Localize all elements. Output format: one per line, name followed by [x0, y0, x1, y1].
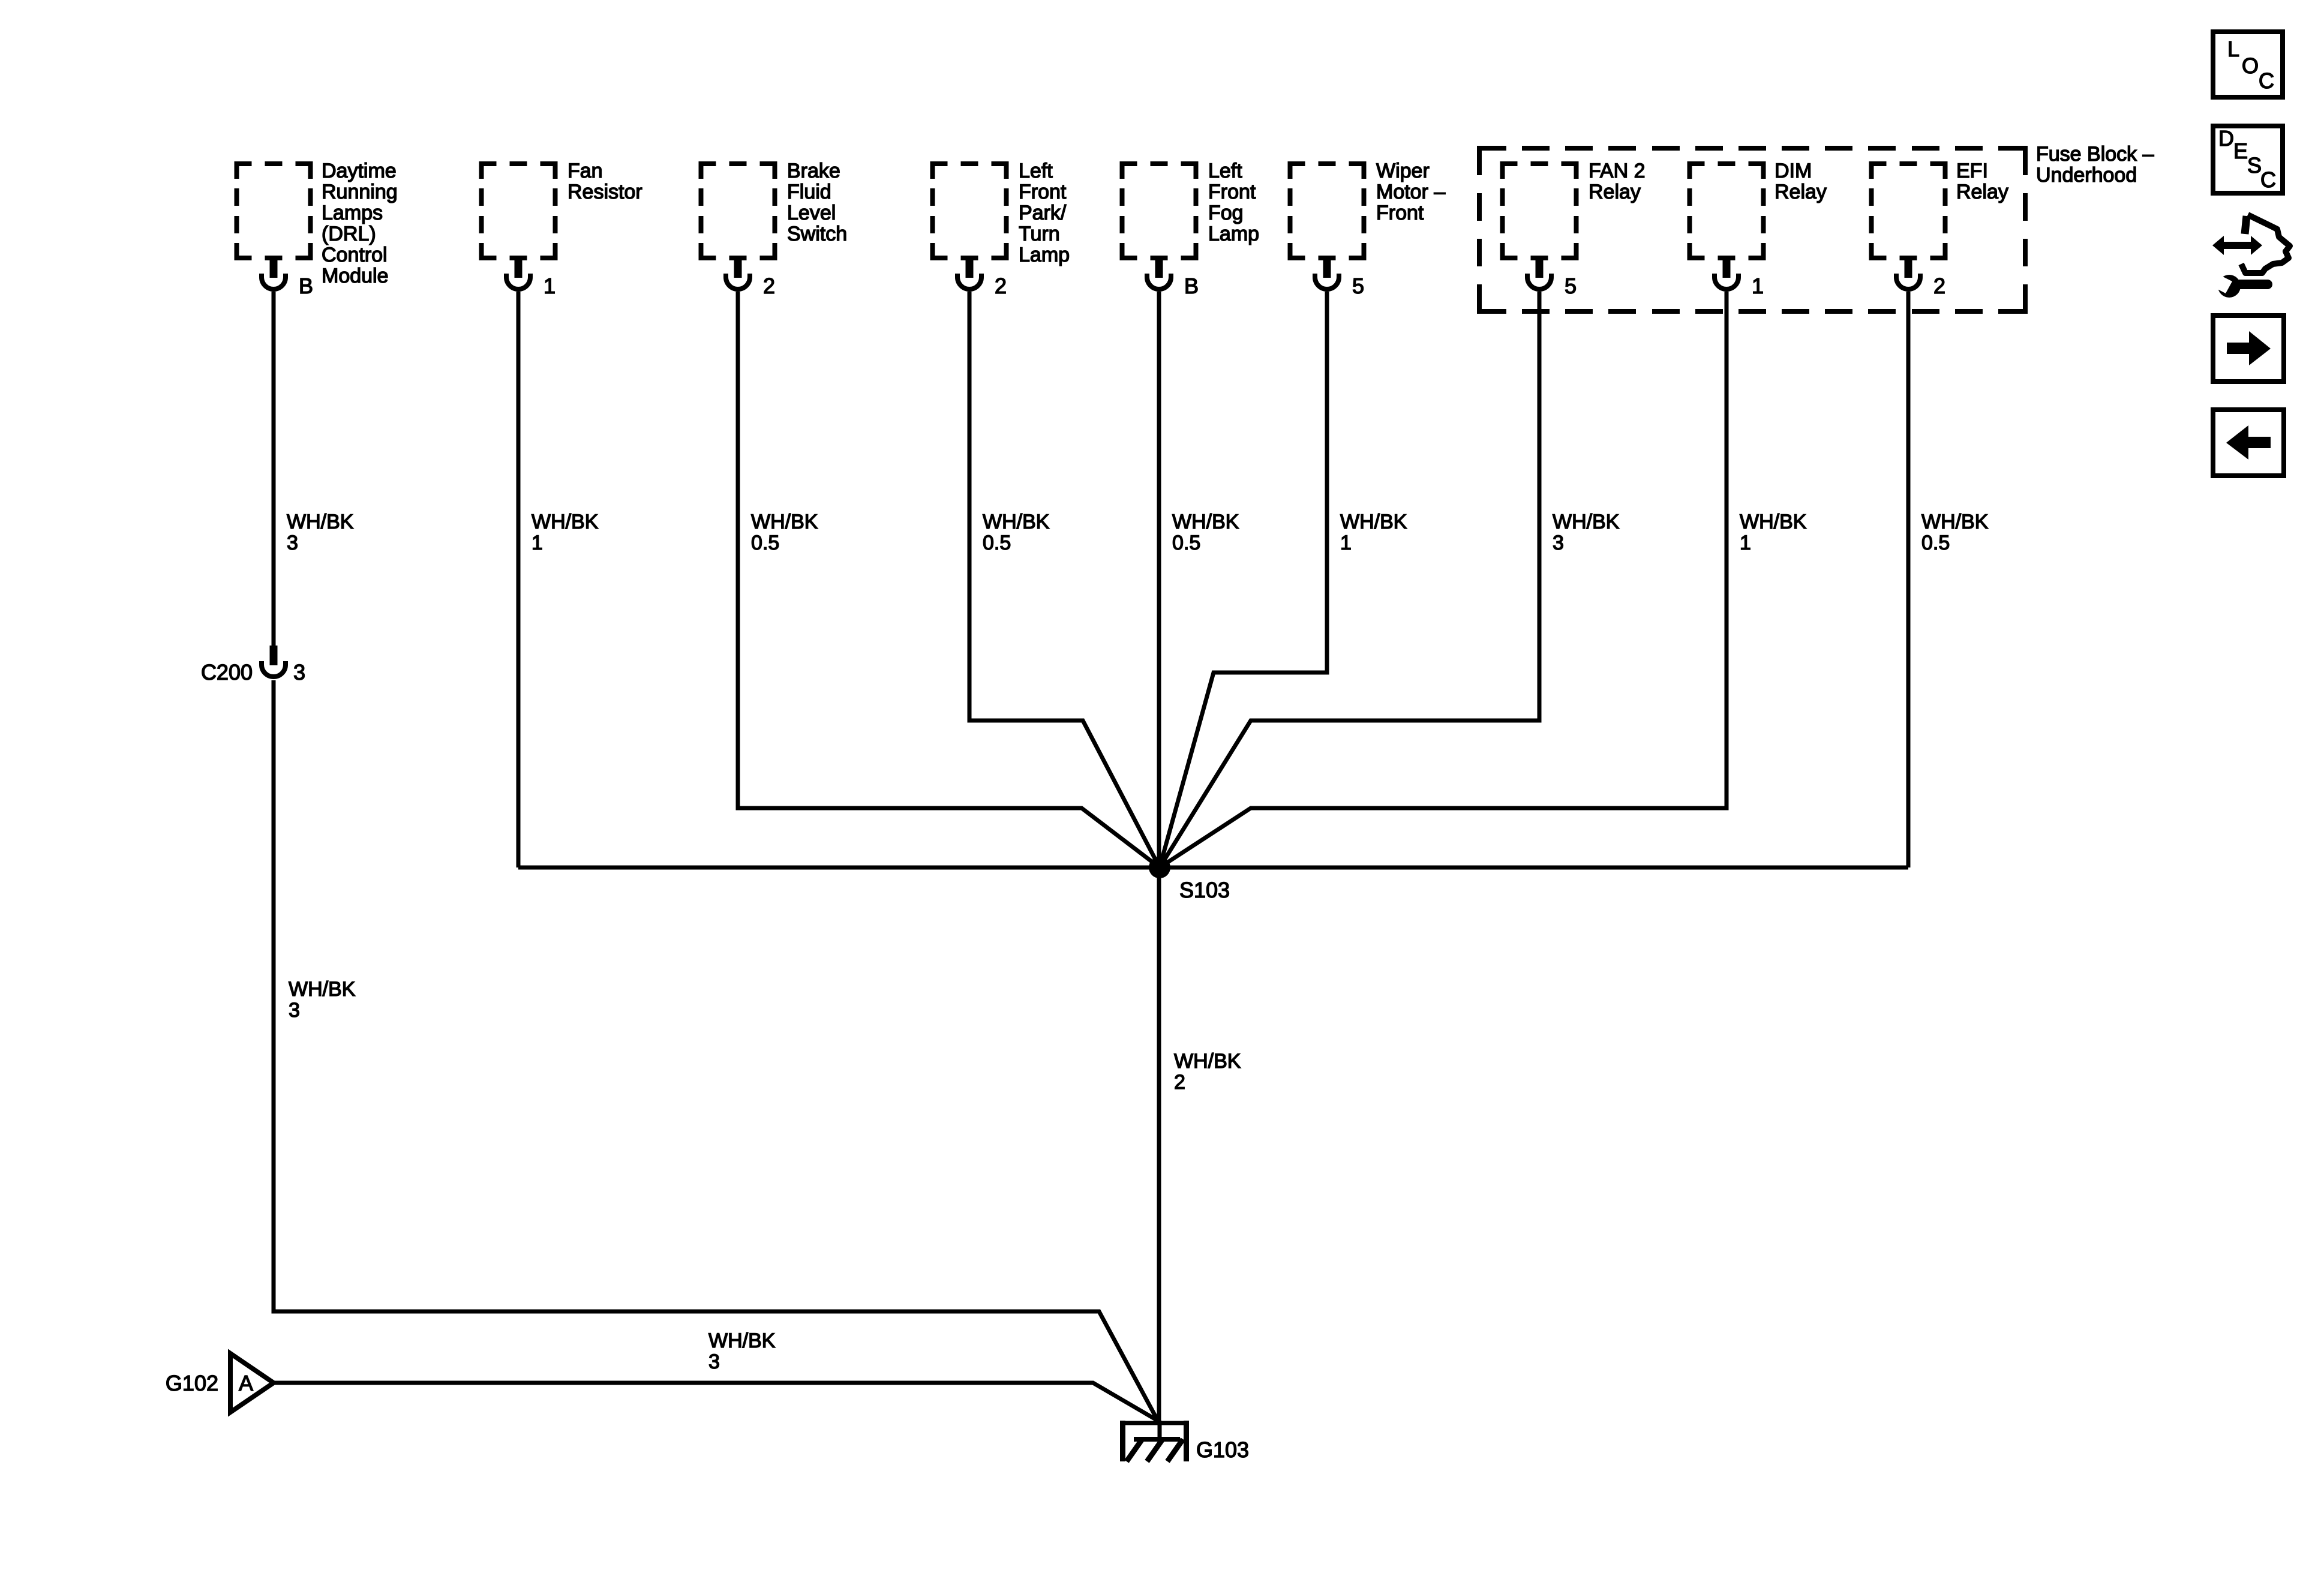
- svg-text:O: O: [2242, 53, 2259, 78]
- svg-text:WH/BK: WH/BK: [287, 511, 354, 533]
- svg-text:EFI: EFI: [1956, 160, 1988, 182]
- svg-text:WH/BK: WH/BK: [1553, 511, 1620, 533]
- svg-text:5: 5: [1565, 274, 1577, 298]
- svg-text:Park/: Park/: [1019, 202, 1067, 224]
- svg-text:WH/BK: WH/BK: [1921, 511, 1989, 533]
- svg-text:Control: Control: [322, 244, 388, 266]
- svg-text:DIM: DIM: [1774, 160, 1812, 182]
- svg-text:Relay: Relay: [1774, 181, 1827, 203]
- svg-text:WH/BK: WH/BK: [532, 511, 599, 533]
- svg-text:G103: G103: [1196, 1437, 1249, 1462]
- svg-text:Front: Front: [1376, 202, 1424, 224]
- svg-text:A: A: [239, 1371, 253, 1395]
- svg-text:L: L: [2227, 37, 2239, 61]
- svg-text:Fan: Fan: [568, 160, 603, 182]
- svg-text:Turn: Turn: [1019, 223, 1060, 245]
- svg-text:B: B: [1184, 274, 1199, 298]
- svg-text:S: S: [2247, 153, 2262, 178]
- svg-text:WH/BK: WH/BK: [751, 511, 818, 533]
- svg-text:3: 3: [289, 999, 300, 1022]
- svg-text:1: 1: [1752, 274, 1764, 298]
- svg-text:FAN 2: FAN 2: [1589, 160, 1645, 182]
- svg-text:Fog: Fog: [1208, 202, 1244, 224]
- svg-text:Front: Front: [1208, 181, 1256, 203]
- svg-text:Relay: Relay: [1589, 181, 1641, 203]
- svg-text:E: E: [2233, 139, 2248, 163]
- svg-text:Front: Front: [1019, 181, 1067, 203]
- svg-text:0.5: 0.5: [1921, 532, 1950, 554]
- svg-text:WH/BK: WH/BK: [1340, 511, 1407, 533]
- svg-text:Motor –: Motor –: [1376, 181, 1445, 203]
- svg-text:3: 3: [293, 660, 305, 685]
- svg-text:0.5: 0.5: [983, 532, 1011, 554]
- svg-text:Resistor: Resistor: [568, 181, 642, 203]
- svg-text:2: 2: [995, 274, 1007, 298]
- svg-text:Wiper: Wiper: [1376, 160, 1430, 182]
- svg-text:Running: Running: [322, 181, 398, 203]
- svg-text:G102: G102: [166, 1371, 218, 1395]
- svg-text:Module: Module: [322, 265, 389, 287]
- svg-text:C200: C200: [201, 660, 253, 685]
- svg-text:WH/BK: WH/BK: [1172, 511, 1239, 533]
- svg-text:Lamp: Lamp: [1019, 244, 1070, 266]
- svg-text:WH/BK: WH/BK: [708, 1329, 776, 1352]
- svg-text:Brake: Brake: [787, 160, 840, 182]
- svg-text:WH/BK: WH/BK: [983, 511, 1050, 533]
- svg-text:Underhood: Underhood: [2036, 164, 2137, 187]
- svg-text:B: B: [299, 274, 313, 298]
- svg-text:(DRL): (DRL): [322, 223, 376, 245]
- svg-text:Level: Level: [787, 202, 836, 224]
- svg-text:S103: S103: [1179, 878, 1230, 902]
- svg-text:D: D: [2218, 126, 2234, 151]
- svg-text:Lamps: Lamps: [322, 202, 383, 224]
- svg-text:1: 1: [1340, 532, 1352, 554]
- svg-text:1: 1: [1740, 532, 1751, 554]
- svg-text:5: 5: [1352, 274, 1364, 298]
- svg-text:C: C: [2260, 167, 2276, 192]
- svg-text:WH/BK: WH/BK: [1740, 511, 1807, 533]
- svg-text:Daytime: Daytime: [322, 160, 397, 182]
- svg-text:Fuse Block –: Fuse Block –: [2036, 143, 2154, 166]
- svg-text:0.5: 0.5: [751, 532, 779, 554]
- svg-text:1: 1: [532, 532, 543, 554]
- svg-text:2: 2: [1174, 1071, 1185, 1094]
- svg-text:Left: Left: [1019, 160, 1053, 182]
- svg-text:WH/BK: WH/BK: [289, 978, 356, 1001]
- svg-text:0.5: 0.5: [1172, 532, 1200, 554]
- svg-text:C: C: [2259, 68, 2274, 93]
- svg-text:Relay: Relay: [1956, 181, 2008, 203]
- svg-text:2: 2: [1933, 274, 1945, 298]
- svg-text:3: 3: [287, 532, 298, 554]
- svg-text:3: 3: [1553, 532, 1564, 554]
- svg-text:Left: Left: [1208, 160, 1242, 182]
- svg-text:Switch: Switch: [787, 223, 847, 245]
- svg-text:3: 3: [708, 1350, 720, 1373]
- svg-text:Fluid: Fluid: [787, 181, 831, 203]
- svg-text:1: 1: [544, 274, 556, 298]
- svg-text:WH/BK: WH/BK: [1174, 1050, 1241, 1073]
- svg-text:2: 2: [763, 274, 775, 298]
- svg-text:Lamp: Lamp: [1208, 223, 1259, 245]
